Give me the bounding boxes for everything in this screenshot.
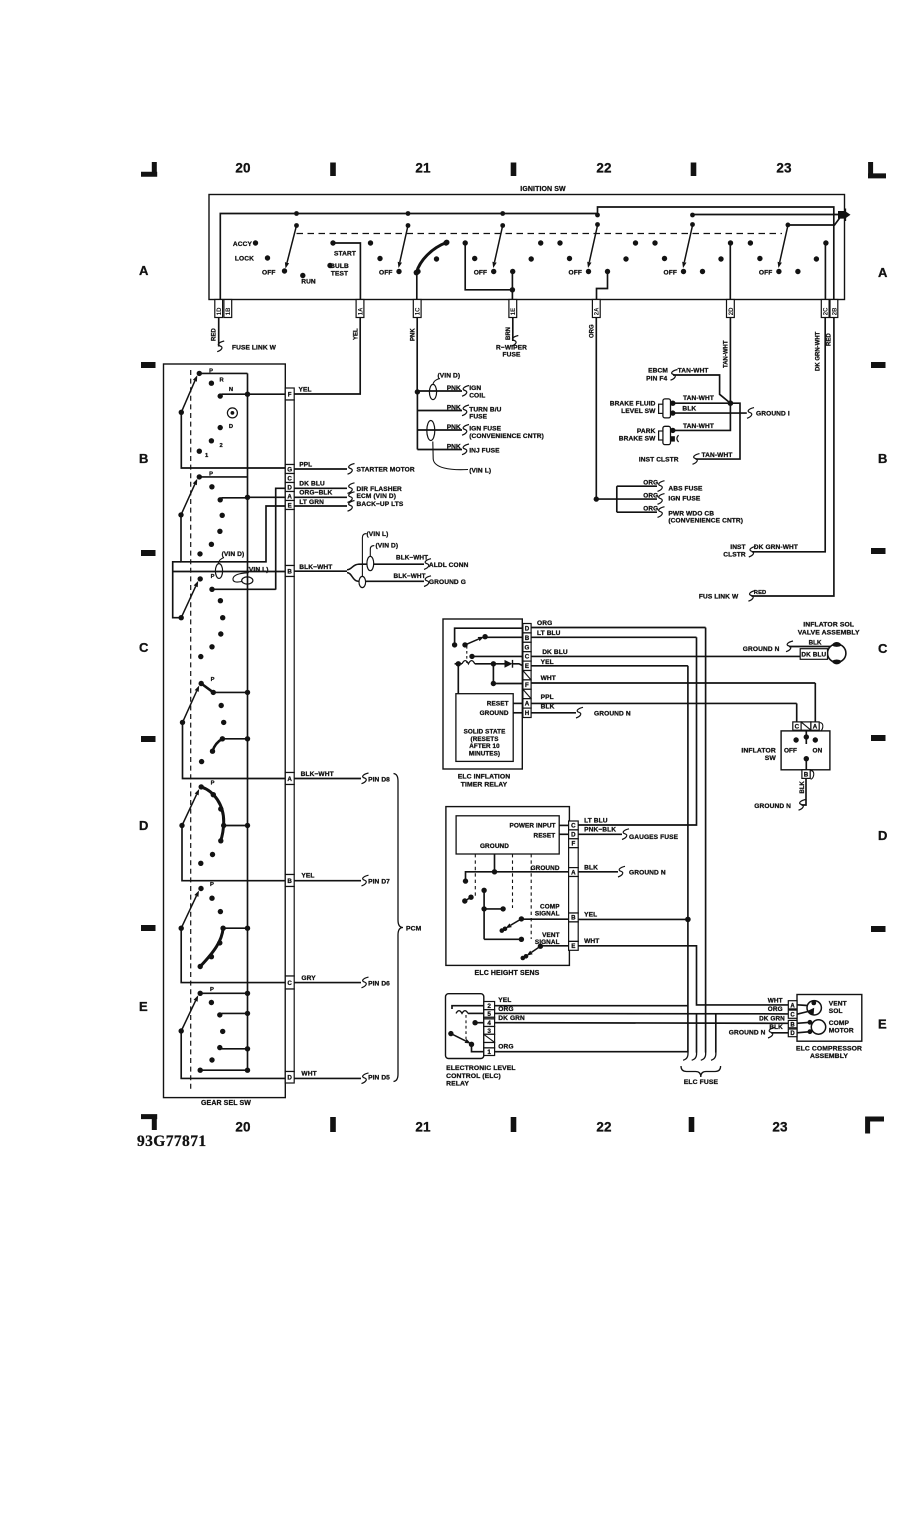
wire 1C PNK down to branch junction: [415, 318, 420, 450]
gear wafer7 contact wires to bus: [200, 991, 250, 1073]
svg-text:LT BLU: LT BLU: [584, 818, 608, 825]
wire GROUND N BLK to inflator valve: [743, 639, 830, 653]
svg-text:ON: ON: [813, 748, 823, 755]
svg-text:23: 23: [776, 161, 792, 176]
wire gear B YEL to PCM PIN D7: [294, 873, 368, 886]
wire LT BLU vertical to height sensor C: [578, 637, 696, 825]
IGN COIL label: [469, 385, 485, 400]
svg-text:2D: 2D: [729, 307, 735, 315]
svg-text:GROUND G: GROUND G: [429, 579, 466, 586]
svg-text:VALVE ASSEMBLY: VALVE ASSEMBLY: [798, 630, 860, 637]
svg-text:GROUND N: GROUND N: [729, 1029, 766, 1036]
wire ORG vertical to ELC fuse: [705, 628, 707, 1053]
svg-text:2B: 2B: [832, 307, 838, 315]
svg-text:F: F: [525, 682, 529, 689]
ignition switch gang at x=408 blade: [398, 226, 408, 269]
svg-text:1: 1: [487, 1049, 491, 1056]
grid row letters right: A B C D E: [878, 265, 888, 1032]
svg-text:CLSTR: CLSTR: [723, 552, 746, 559]
PNK branch to INJ FUSE: [417, 444, 469, 455]
svg-text:ORG: ORG: [768, 1006, 783, 1013]
svg-text:(CONVENIENCE CNTR): (CONVENIENCE CNTR): [668, 518, 743, 525]
height sensor vent signal blade: [521, 944, 569, 961]
ELC height sensor inner control box: [456, 816, 559, 854]
svg-text:IGN FUSE: IGN FUSE: [469, 426, 501, 433]
svg-text:PNK: PNK: [447, 385, 461, 392]
svg-text:VENT: VENT: [829, 1001, 847, 1008]
ignition PNK wiper contact curve (gang2) to connector 1C: [414, 240, 450, 300]
svg-text:TAN-WHT: TAN-WHT: [724, 340, 730, 368]
wire ELC timer A PPL to inflator switch C: [531, 694, 797, 722]
gear wafer5 common wire to pin B (PIN D7): [182, 826, 285, 881]
svg-text:LT BLU: LT BLU: [537, 630, 561, 637]
wire 1D RED to FUSE LINK W: [217, 318, 224, 352]
svg-text:D: D: [287, 1075, 292, 1082]
PCM brace: [394, 774, 404, 1082]
svg-text:ORG−BLK: ORG−BLK: [299, 490, 332, 497]
gear wafer4 short wiper to bus: [201, 684, 250, 696]
gear wafer3 blade: [179, 581, 199, 621]
wire gear G PPL to STARTER MOTOR: [294, 461, 354, 474]
gear wafer2 blade: [178, 479, 197, 518]
SOLID STATE (RESETS AFTER 10 MINUTES) label: [464, 729, 506, 758]
svg-text:P: P: [211, 677, 215, 683]
svg-text:BRAKE FLUID: BRAKE FLUID: [610, 401, 656, 408]
gear selector dashed shaft line: [190, 370, 192, 1092]
wire 2C DK GRN-WHT to INST CLSTR: [749, 318, 825, 558]
svg-text:ELC INFLATION: ELC INFLATION: [458, 773, 511, 780]
PNK branch to IGN COIL with (VIN D) tap: [417, 384, 469, 399]
svg-text:B: B: [139, 451, 149, 466]
svg-text:LEVEL SW: LEVEL SW: [621, 408, 656, 415]
ignition switch gang at x=408 contact dots: [368, 240, 449, 274]
wire gear B BLK-WHT split to ALDL CONN and GROUND G: [294, 555, 431, 588]
svg-text:YEL: YEL: [299, 387, 312, 394]
svg-text:RED: RED: [827, 333, 833, 346]
svg-text:(RESETS: (RESETS: [471, 736, 499, 743]
svg-text:YEL: YEL: [354, 328, 360, 340]
svg-text:RED: RED: [212, 328, 218, 341]
PNK branch to TURN B/U FUSE: [417, 405, 469, 416]
svg-text:ORG: ORG: [643, 493, 658, 500]
border corner mark top-right: [868, 162, 886, 176]
ignition switch gang at x=787.9 blade: [778, 226, 788, 269]
ELC relay internal dashed actuator: [465, 1015, 467, 1040]
gear wafer3 R contact wire to pin D: [212, 588, 276, 590]
ignition gang1 pivot: [294, 211, 299, 228]
svg-text:ASSEMBLY: ASSEMBLY: [810, 1053, 848, 1060]
svg-text:21: 21: [415, 161, 431, 176]
border corner mark bottom-left: [141, 1114, 157, 1130]
svg-text:2C: 2C: [824, 307, 830, 315]
svg-text:START: START: [334, 251, 356, 258]
svg-text:DK GRN: DK GRN: [759, 1015, 785, 1022]
svg-text:PARK: PARK: [637, 428, 656, 435]
ignition connector pin 1C: [413, 300, 421, 318]
wire ELC relay 5 ORG to compressor C: [495, 1006, 789, 1014]
ignition switch gang at x=692.5 contact dots: [652, 240, 733, 274]
wire ELC timer C DK BLU to inflator valve: [531, 649, 828, 656]
svg-text:GROUND: GROUND: [480, 843, 509, 850]
svg-text:COIL: COIL: [469, 393, 485, 400]
svg-text:2: 2: [487, 1003, 491, 1010]
svg-text:E: E: [525, 663, 529, 670]
wire 2A ORG down to fuse branch junction: [594, 318, 599, 502]
svg-text:B: B: [571, 915, 576, 922]
height sensor internal contacts: [462, 888, 524, 942]
svg-text:ORG: ORG: [537, 620, 552, 627]
TURN B/U FUSE label: [469, 407, 501, 421]
svg-text:5: 5: [487, 1011, 491, 1018]
svg-text:2A: 2A: [595, 307, 601, 315]
ignition switch gang at x=692.5 pivot: [690, 213, 695, 227]
wire junction to INST CLSTR TAN-WHT: [693, 403, 741, 464]
gear wafer4 position dots: [199, 677, 227, 764]
svg-text:BLK: BLK: [800, 781, 806, 794]
svg-text:MINUTES): MINUTES): [469, 750, 500, 757]
gear wafer6 common wire to pin C (PIN D6): [181, 928, 285, 982]
svg-text:FUS LINK W: FUS LINK W: [699, 593, 739, 600]
svg-text:YEL: YEL: [541, 659, 554, 666]
wire height A BLK to GROUND N: [578, 865, 625, 878]
wire 2B RED to FUS LINK W: [748, 318, 834, 602]
wire gear C GRY to PCM PIN D6: [294, 975, 368, 988]
wire 1A YEL down to gear sel switch pin F: [294, 318, 360, 395]
gear wafer5 position dots: [198, 780, 215, 866]
height sensor internal dashed links: [475, 854, 531, 939]
grid column ticks top: [330, 163, 696, 177]
svg-text:C: C: [139, 640, 149, 655]
svg-text:RESET: RESET: [533, 833, 555, 840]
svg-text:22: 22: [596, 1120, 611, 1135]
svg-text:SOLID STATE: SOLID STATE: [464, 729, 506, 736]
ELC timer RESET stub to A, GROUND stub to H: [513, 703, 523, 712]
ignition switch feed bus wire (left gangs): [220, 214, 597, 300]
wire ORG drop to fuse hook4: [715, 1014, 717, 1053]
grid column numbers top: 20 21 22 23: [235, 161, 792, 176]
svg-text:IGNITION SW: IGNITION SW: [520, 186, 566, 193]
svg-text:BLK: BLK: [809, 639, 822, 646]
svg-text:TAN-WHT: TAN-WHT: [678, 368, 709, 375]
svg-text:D: D: [525, 626, 530, 633]
OFF ON labels (inflator): [784, 748, 823, 755]
svg-text:ECM (VIN D): ECM (VIN D): [357, 493, 397, 500]
svg-text:P: P: [211, 574, 215, 580]
svg-text:DK GRN-WHT: DK GRN-WHT: [754, 544, 798, 551]
svg-text:E: E: [878, 1017, 887, 1032]
wire ELC relay 2 YEL: [495, 997, 688, 1006]
gear wafer6 position dots: [198, 882, 223, 914]
svg-text:ELC HEIGHT SENS: ELC HEIGHT SENS: [475, 970, 540, 977]
svg-text:C: C: [525, 654, 530, 661]
svg-text:GEAR SEL SW: GEAR SEL SW: [201, 1100, 251, 1107]
IGN FUSE (CONVENIENCE CNTR) label: [469, 426, 544, 441]
svg-text:WHT: WHT: [541, 675, 556, 682]
inflator switch pin row C / A: [793, 722, 823, 732]
svg-text:G: G: [525, 644, 530, 651]
wire gang1 START to connector 1A: [333, 243, 360, 300]
ignition gang1 blade: [285, 226, 297, 269]
svg-text:TAN-WHT: TAN-WHT: [702, 452, 733, 459]
svg-text:EBCM: EBCM: [648, 367, 668, 374]
wire ELC timer B LT BLU: [531, 630, 697, 637]
gear wafer3 position dots: [198, 574, 226, 659]
svg-text:1C: 1C: [416, 307, 422, 315]
svg-text:20: 20: [235, 161, 250, 176]
svg-text:C: C: [287, 980, 292, 987]
gear wafer4 common wire to pin A (PIN D8): [183, 722, 286, 778]
svg-text:D: D: [571, 832, 576, 839]
gear wafer5 wiper arc: [201, 787, 226, 844]
ignition switch gang at x=408 pivot: [406, 211, 411, 228]
VENT SIGNAL label: [535, 932, 560, 946]
svg-text:DIR FLASHER: DIR FLASHER: [357, 486, 403, 493]
svg-text:PIN F4: PIN F4: [646, 375, 667, 382]
grid column ticks bottom: [330, 1117, 694, 1132]
svg-text:STARTER MOTOR: STARTER MOTOR: [357, 467, 415, 474]
ignition switch gang at x=597.5 contact dots: [557, 240, 638, 274]
wire gear A BLK-WHT to PCM PIN D8: [294, 771, 368, 784]
svg-text:COMP: COMP: [829, 1020, 850, 1027]
ignition connector pin 1A: [356, 300, 364, 318]
svg-text:SIGNAL: SIGNAL: [535, 911, 560, 918]
svg-text:YEL: YEL: [301, 873, 314, 880]
splice junction at ignition switch right: [838, 209, 851, 222]
(VIN D) label at ALDL split: [370, 543, 398, 557]
svg-text:PWR WDO CB: PWR WDO CB: [668, 510, 714, 517]
ELC INFLATION TIMER RELAY label: [458, 773, 511, 788]
inflator switch box: [781, 731, 830, 770]
svg-text:GAUGES FUSE: GAUGES FUSE: [629, 834, 679, 841]
svg-text:A: A: [139, 263, 149, 278]
ELC fuse hooks: [683, 1052, 716, 1060]
ignition connector pin 1E: [509, 300, 517, 318]
border corner mark bottom-right: [866, 1117, 885, 1134]
svg-text:D: D: [790, 1031, 795, 1037]
ELC height sensor box: [446, 807, 570, 966]
wire labels WHT ORG DK GRN BLK at compressor: [759, 997, 785, 1031]
svg-text:OFF: OFF: [262, 270, 275, 277]
svg-text:GROUND N: GROUND N: [629, 869, 666, 876]
svg-text:TURN B/U: TURN B/U: [469, 407, 501, 414]
svg-text:OFF: OFF: [664, 270, 677, 277]
height sensor comp signal blade: [500, 916, 569, 933]
wire brake fluid switch BLK to GROUND I: [673, 406, 754, 419]
gear wafer1 common wire to pin G: [181, 412, 285, 468]
svg-text:BLK: BLK: [584, 865, 598, 872]
VENT SOL label: [829, 1001, 847, 1015]
svg-text:F: F: [288, 391, 292, 398]
ignition connector pin 2D: [727, 300, 735, 318]
inflator switch contacts: [793, 731, 818, 770]
wire YEL vertical to ELC fuse: [685, 666, 691, 1053]
svg-text:A: A: [790, 1003, 795, 1009]
gear selector contact bus wire: [247, 373, 249, 1070]
DK BLU boxed label at valve: [800, 649, 827, 660]
svg-text:ALDL CONN: ALDL CONN: [429, 562, 469, 569]
svg-text:ORG: ORG: [498, 1043, 513, 1050]
wire 1E BRN to R-WIPER FUSE: [511, 318, 518, 347]
svg-text:DK BLU: DK BLU: [299, 480, 325, 487]
ignition connector pin 1D: [215, 300, 223, 318]
svg-text:DK GRN: DK GRN: [498, 1015, 525, 1022]
svg-text:R−WIPER: R−WIPER: [496, 345, 527, 352]
height sensor pin letters C D F A B E: [571, 823, 576, 950]
svg-text:A: A: [287, 493, 292, 500]
svg-text:E: E: [571, 943, 575, 950]
comp motor symbol: [797, 1020, 826, 1034]
svg-text:POWER INPUT: POWER INPUT: [509, 822, 555, 829]
svg-text:BLK: BLK: [541, 703, 555, 710]
gear wafer5 contact to bus: [224, 823, 251, 828]
svg-text:C: C: [795, 724, 800, 731]
svg-text:PNK: PNK: [447, 405, 461, 412]
svg-text:GROUND N: GROUND N: [754, 803, 791, 810]
ELC timer pin letters D B G C E F A H: [525, 626, 530, 718]
svg-text:(VIN L): (VIN L): [367, 531, 389, 538]
compressor pin strip A C B D: [788, 1001, 797, 1037]
svg-text:BULB: BULB: [330, 263, 349, 270]
svg-text:WHT: WHT: [301, 1070, 316, 1077]
svg-text:IGN: IGN: [469, 385, 481, 392]
svg-text:RELAY: RELAY: [446, 1081, 469, 1088]
svg-text:ACCY: ACCY: [233, 241, 253, 248]
svg-text:(VIN D): (VIN D): [438, 372, 461, 379]
svg-text:RUN: RUN: [301, 279, 316, 286]
svg-text:INJ FUSE: INJ FUSE: [469, 447, 500, 454]
gear selector switch outer box: [164, 364, 286, 1098]
INST CLSTR label (DK GRN-WHT): [723, 544, 746, 559]
svg-text:1A: 1A: [358, 307, 364, 315]
ELC COMPRESSOR ASSEMBLY label: [796, 1045, 862, 1060]
svg-text:FUSE: FUSE: [503, 352, 521, 359]
svg-text:TAN-WHT: TAN-WHT: [683, 423, 714, 430]
wire gang3 contact to connector 1E: [465, 243, 515, 300]
svg-text:BLK−WHT: BLK−WHT: [396, 555, 428, 562]
svg-text:PPL: PPL: [541, 694, 554, 701]
PNK branch to IGN FUSE (convenience center): [417, 421, 469, 441]
svg-text:(CONVENIENCE CNTR): (CONVENIENCE CNTR): [469, 433, 544, 440]
svg-text:YEL: YEL: [498, 997, 511, 1004]
wire gang6 contact to connector 2C: [824, 243, 826, 299]
ELC timer internal coil and diode to E: [455, 660, 523, 668]
ignition switch feed wire gang4 to connector 2B: [598, 207, 834, 300]
svg-text:D: D: [878, 828, 888, 843]
svg-text:1D: 1D: [217, 307, 223, 315]
svg-text:GROUND: GROUND: [480, 710, 509, 717]
svg-text:BRAKE SW: BRAKE SW: [619, 435, 656, 442]
gear wafer6 blade: [179, 891, 200, 931]
height sensor internal ground wire: [463, 854, 569, 884]
ELC inflation timer relay box: [443, 619, 522, 769]
svg-text:PNK: PNK: [447, 444, 461, 451]
gear wafer6 wiper arc: [198, 926, 226, 970]
svg-text:D: D: [139, 818, 149, 833]
ignition connector pin 2A: [592, 300, 600, 318]
svg-text:A: A: [525, 701, 530, 708]
grid row letters left: A B C D E: [139, 263, 149, 1014]
svg-text:R: R: [220, 378, 225, 384]
INFLATOR SW label: [741, 747, 776, 762]
svg-text:COMP: COMP: [540, 903, 560, 910]
ignition switch gang at x=597.5 pivot: [595, 213, 600, 227]
svg-text:BLK−WHT: BLK−WHT: [394, 573, 426, 580]
(VIN L) label under INJ branch: [433, 442, 491, 475]
gear pin D internal wire to wafer3: [276, 488, 286, 589]
svg-text:PNK: PNK: [411, 328, 417, 341]
wire ELC timer D ORG: [531, 620, 706, 627]
wire GROUND N to compressor D: [729, 1027, 789, 1038]
svg-text:CONTROL (ELC): CONTROL (ELC): [446, 1073, 501, 1080]
ELC timer pin strip: [523, 624, 531, 718]
svg-text:B: B: [790, 1022, 795, 1028]
wire inflator B BLK to GROUND N: [799, 778, 807, 810]
gear wafer1 blade: [179, 375, 198, 415]
PWR WDO CB (CONVENIENCE CNTR) label: [668, 510, 743, 524]
COMP SIGNAL label: [535, 903, 560, 917]
svg-text:MOTOR: MOTOR: [829, 1027, 854, 1034]
svg-text:A: A: [287, 776, 292, 783]
svg-text:TIMER RELAY: TIMER RELAY: [461, 781, 508, 788]
wire ELC timer F WHT to inflator switch A: [531, 675, 815, 722]
svg-text:1E: 1E: [511, 308, 517, 315]
svg-text:F: F: [571, 841, 575, 848]
svg-text:SW: SW: [765, 755, 777, 762]
svg-text:B: B: [287, 568, 292, 575]
svg-text:GROUND: GROUND: [531, 865, 560, 872]
ELC timer internal dashed actuator: [466, 646, 468, 663]
inflator valve solenoid circle: [828, 642, 846, 664]
svg-text:GROUND I: GROUND I: [756, 411, 790, 418]
gear wafer4 blade: [180, 686, 199, 726]
svg-text:A: A: [571, 869, 576, 876]
wire ELC relay 1 ORG: [495, 1043, 688, 1051]
grid row dash ticks left: [141, 362, 156, 931]
svg-text:TAN-WHT: TAN-WHT: [683, 395, 714, 402]
svg-text:A: A: [813, 724, 818, 731]
svg-text:PIN D7: PIN D7: [368, 879, 390, 886]
svg-text:DK BLU: DK BLU: [542, 649, 568, 656]
ignition switch gang at x=502.7 pivot: [500, 211, 505, 228]
gear wafer5 blade: [179, 789, 199, 828]
svg-text:WHT: WHT: [768, 997, 783, 1004]
wire height D PNK-BLK to GAUGES FUSE: [578, 827, 629, 840]
svg-text:(VIN L): (VIN L): [247, 567, 269, 574]
ignition switch gang at x=787.9 pivot: [786, 223, 791, 228]
svg-text:21: 21: [415, 1120, 431, 1135]
svg-text:PIN D5: PIN D5: [368, 1075, 390, 1082]
wire gear D DK BLU to DIR FLASHER: [294, 480, 354, 493]
svg-text:RED: RED: [754, 590, 767, 596]
ELC timer internal wires into solid state: [458, 664, 523, 694]
INFLATOR SOL VALVE ASSEMBLY label: [798, 621, 860, 636]
R-WIPER FUSE label: [496, 345, 527, 359]
brake fluid level switch symbol: [659, 399, 676, 418]
gear wafer6 contact to bus: [223, 926, 250, 931]
ORG fuse branch bracket: [596, 486, 617, 512]
svg-text:ORG: ORG: [498, 1006, 513, 1013]
svg-text:PNK−BLK: PNK−BLK: [584, 827, 616, 834]
svg-text:E: E: [139, 999, 148, 1014]
ignition connector pin 1B: [224, 300, 232, 318]
svg-text:SOL: SOL: [829, 1008, 843, 1015]
svg-text:C: C: [287, 475, 292, 482]
svg-text:LOCK: LOCK: [235, 256, 254, 263]
(VIN L) connector on gear bus: [233, 567, 269, 585]
svg-text:TEST: TEST: [331, 271, 348, 278]
svg-text:BLK: BLK: [769, 1024, 783, 1031]
svg-text:OFF: OFF: [784, 748, 797, 755]
